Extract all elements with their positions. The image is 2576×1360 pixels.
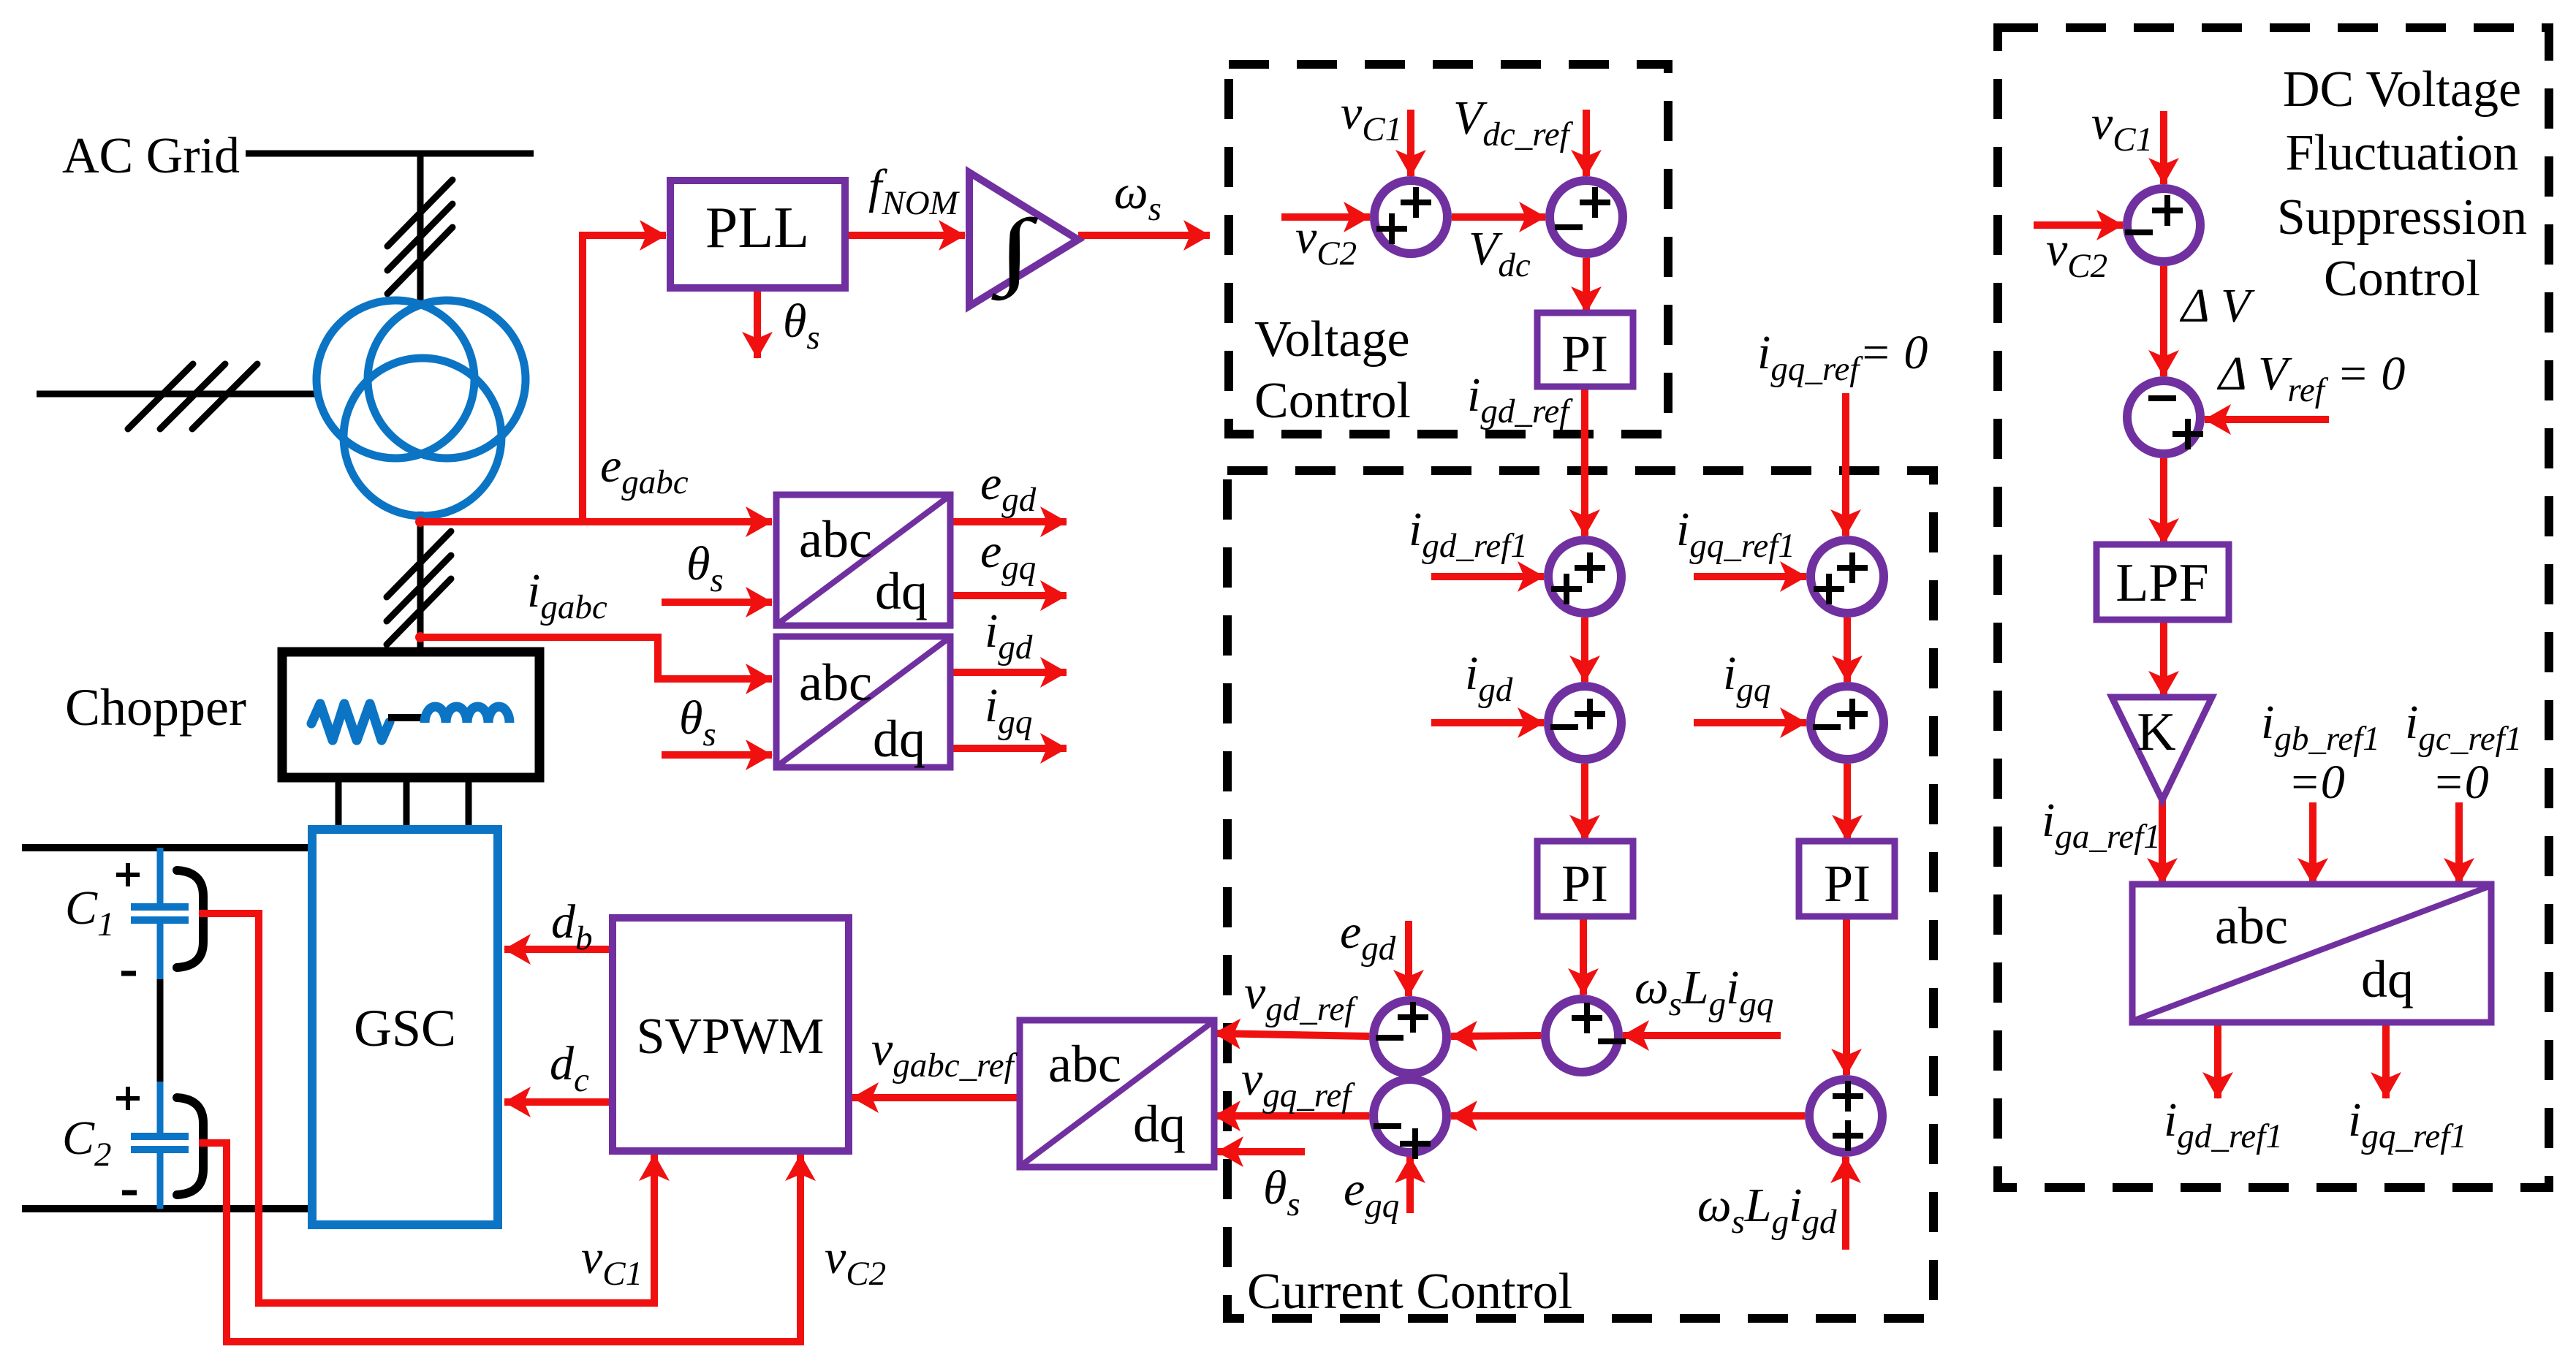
svg-text:DC Voltage: DC Voltage bbox=[2283, 61, 2521, 118]
svg-text:Δ V: Δ V bbox=[2179, 279, 2255, 333]
svg-text:Current Control: Current Control bbox=[1247, 1264, 1572, 1320]
svg-text:abc: abc bbox=[1048, 1035, 1121, 1093]
svg-text:dq: dq bbox=[1133, 1095, 1186, 1153]
svg-text:dq: dq bbox=[873, 710, 925, 768]
svg-text:Control: Control bbox=[1254, 373, 1411, 429]
svg-text:AC Grid: AC Grid bbox=[62, 128, 240, 184]
svg-text:PLL: PLL bbox=[705, 196, 809, 260]
svg-text:=0: =0 bbox=[2432, 756, 2489, 809]
svg-text:abc: abc bbox=[2215, 897, 2288, 955]
svg-text:∫: ∫ bbox=[991, 202, 1039, 301]
svg-text:abc: abc bbox=[799, 510, 872, 569]
svg-text:Voltage: Voltage bbox=[1254, 311, 1410, 368]
svg-text:dq: dq bbox=[875, 562, 928, 620]
svg-text:GSC: GSC bbox=[354, 999, 456, 1057]
svg-text:PI: PI bbox=[1561, 324, 1608, 383]
svg-text:Fluctuation: Fluctuation bbox=[2286, 125, 2519, 181]
svg-text:LPF: LPF bbox=[2115, 553, 2209, 613]
svg-text:K: K bbox=[2137, 702, 2175, 762]
svg-text:PI: PI bbox=[1824, 854, 1871, 913]
svg-text:Chopper: Chopper bbox=[65, 678, 246, 737]
svg-text:=0: =0 bbox=[2288, 756, 2345, 809]
svg-text:Control: Control bbox=[2324, 251, 2480, 307]
svg-text:PI: PI bbox=[1561, 854, 1608, 913]
svg-text:Suppression: Suppression bbox=[2277, 189, 2527, 246]
svg-text:abc: abc bbox=[799, 653, 872, 712]
svg-text:SVPWM: SVPWM bbox=[637, 1008, 825, 1065]
svg-text:dq: dq bbox=[2361, 950, 2414, 1008]
